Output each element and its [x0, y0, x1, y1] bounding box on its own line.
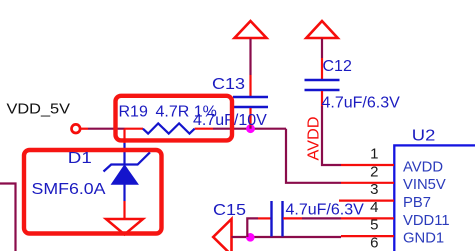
wire: R19 to node — [213, 128, 286, 130]
svg-text:AVDD: AVDD — [306, 117, 323, 161]
wire: node down to pin2 row — [286, 129, 341, 183]
svg-text:D1: D1 — [68, 150, 92, 167]
svg-text:1: 1 — [370, 146, 378, 163]
pin 2 stub — [341, 182, 394, 184]
diode D1: cathode pin from rail (red) — [123, 129, 125, 143]
wire: power port to C13 — [249, 39, 251, 75]
junction node (C15 tap) — [246, 233, 255, 242]
capacitor C15 pin left (red) — [258, 217, 271, 219]
diode D1 triangle — [112, 166, 138, 185]
wire: arrow to GND1 pin — [232, 236, 342, 238]
annotation box around R19 — [116, 96, 233, 141]
wire: power port to C12 — [321, 39, 323, 58]
svg-text:VDD11: VDD11 — [403, 213, 450, 229]
capacitor C12 pin bottom (red) — [321, 91, 323, 106]
svg-text:4.7uF/6.3V: 4.7uF/6.3V — [286, 202, 365, 219]
wire: node up and right to C15 — [247, 218, 258, 237]
svg-text:2: 2 — [370, 163, 378, 180]
junction node (C13 tap) — [246, 124, 255, 133]
capacitor C13 plates — [233, 97, 268, 107]
svg-text:5: 5 — [370, 217, 378, 234]
resistor R19 pins (red) — [125, 128, 144, 130]
capacitor C15 plates — [272, 201, 283, 237]
pin 1 stub — [341, 164, 394, 166]
svg-text:4.7R 1%: 4.7R 1% — [156, 104, 217, 121]
annotation box around D1 — [24, 150, 162, 234]
wire: C13 to rail node — [249, 126, 251, 129]
svg-text:SMF6.0A: SMF6.0A — [32, 181, 106, 198]
wire: C12 down to pin1 row — [322, 106, 341, 165]
svg-text:R19: R19 — [119, 104, 148, 121]
capacitor C12 pin top (red) — [321, 58, 323, 79]
wire: left edge net, horizontal then down — [0, 184, 16, 251]
port circle VDD_5V — [72, 124, 81, 133]
capacitor C13 pin top (red) — [249, 75, 251, 96]
capacitor C15 pin right (red) — [283, 217, 302, 219]
svg-text:VIN5V: VIN5V — [403, 177, 446, 193]
svg-text:4.7uF/6.3V: 4.7uF/6.3V — [322, 95, 401, 112]
ground symbol — [106, 219, 143, 235]
svg-text:GND1: GND1 — [403, 231, 444, 247]
pin 3 stub — [339, 200, 394, 202]
wire: VDD_5V rail to R19 — [80, 128, 88, 130]
svg-text:AVDD: AVDD — [403, 159, 443, 175]
svg-text:C15: C15 — [213, 202, 246, 219]
svg-text:U2: U2 — [412, 127, 436, 144]
capacitor C12 plates — [305, 80, 340, 90]
svg-text:4: 4 — [370, 199, 378, 216]
diode D1 zener bar — [104, 152, 151, 171]
svg-text:C12: C12 — [323, 58, 352, 75]
pin 4 stub — [341, 217, 394, 219]
svg-text:VDD_5V: VDD_5V — [7, 101, 71, 117]
power port AVDD (above C13) — [235, 21, 267, 38]
diode D1 anode lead (blue) — [123, 184, 125, 201]
svg-text:C13: C13 — [212, 76, 245, 93]
diode D1 cathode lead (blue) — [123, 143, 125, 165]
power port AVDD (above C12) — [306, 21, 337, 38]
power port (left arrow at C15/GND rail) — [213, 219, 231, 251]
svg-text:PB7: PB7 — [403, 195, 431, 211]
svg-text:3: 3 — [370, 181, 378, 198]
pin 5 stub — [341, 235, 394, 237]
wire: C15 to pin4 — [302, 217, 341, 219]
IC U2 body — [394, 145, 475, 251]
resistor R19 zigzag — [143, 123, 195, 133]
capacitor C13 pin bottom (red) — [249, 108, 251, 126]
diode D1 anode pin (red) — [123, 201, 125, 219]
svg-text:6: 6 — [370, 235, 378, 251]
